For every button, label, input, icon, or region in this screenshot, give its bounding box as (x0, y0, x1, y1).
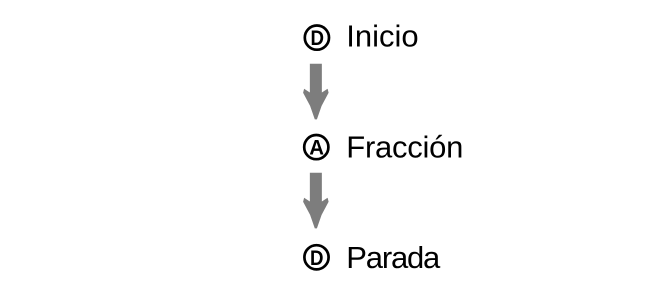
arrow 1 (Inicio to Fraccion) (303, 64, 329, 120)
svg-text:D: D (310, 247, 324, 270)
svg-text:A: A (309, 136, 324, 160)
svg-text:D: D (310, 27, 324, 50)
node A (Fraccion) circled-A symbol (304, 135, 328, 160)
node D (Parada) circled-D symbol (304, 245, 328, 270)
arrow 2 (Fraccion to Parada) (303, 173, 329, 229)
node D (Inicio) circled-D symbol (305, 25, 329, 50)
svg-text:Parada: Parada (346, 240, 441, 275)
svg-text:Fracción: Fracción (346, 130, 463, 165)
svg-text:Inicio: Inicio (346, 19, 418, 54)
